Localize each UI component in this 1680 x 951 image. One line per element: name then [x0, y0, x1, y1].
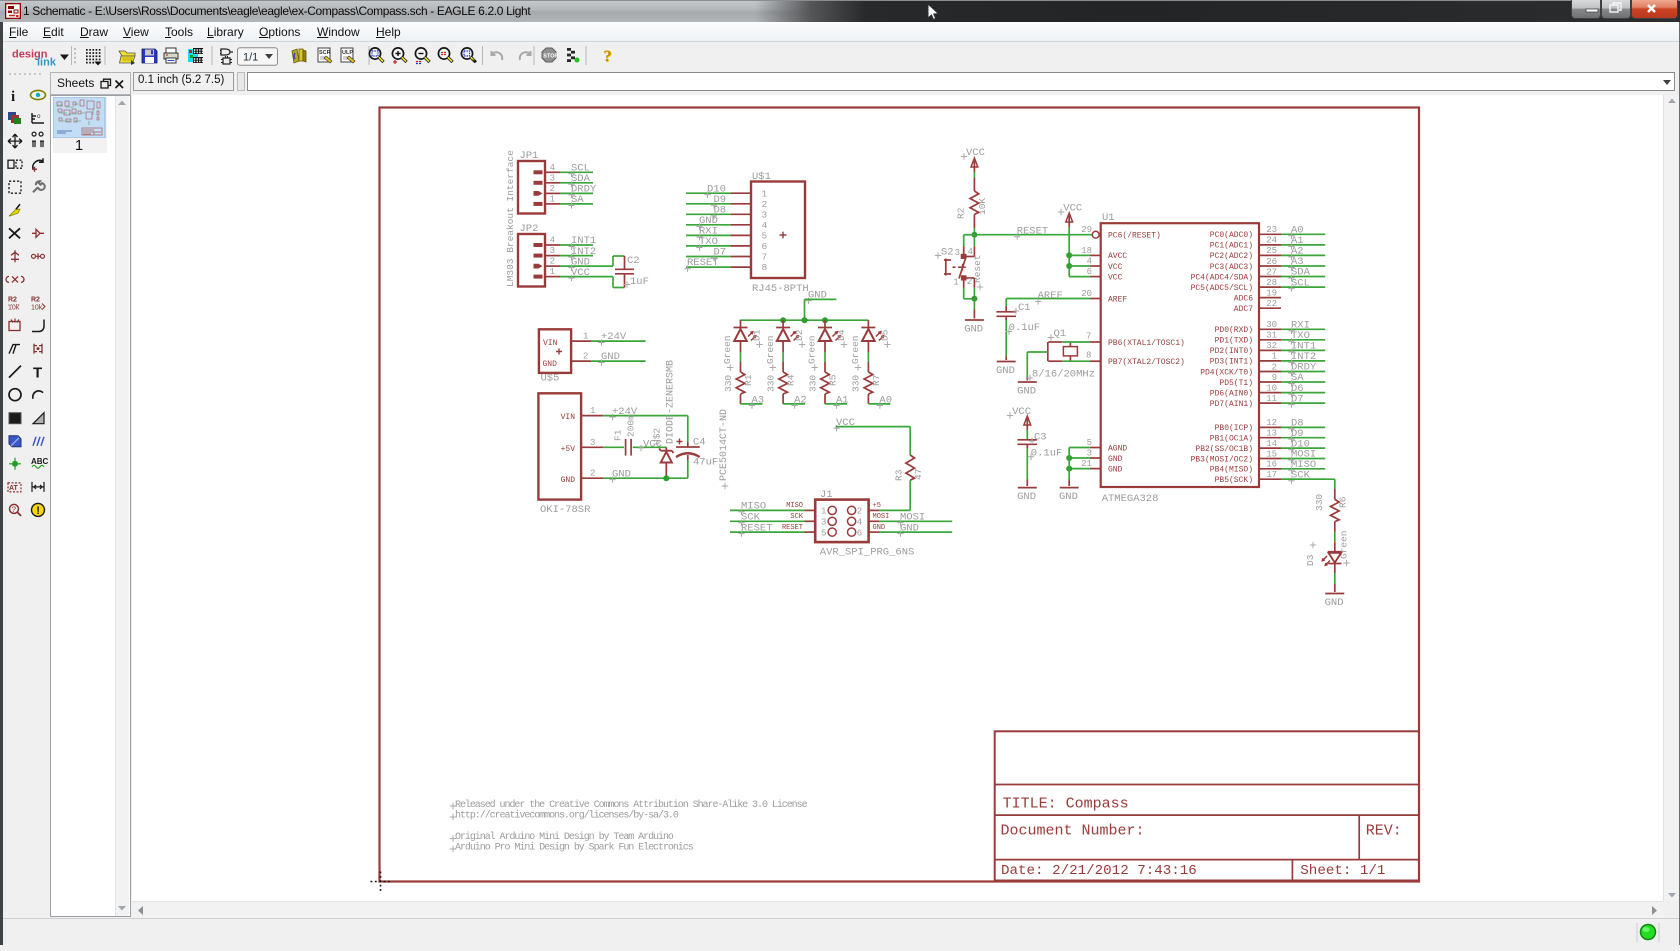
svg-text:link: link	[37, 57, 57, 69]
svg-text:?: ?	[603, 47, 612, 66]
svg-text:OKI-78SR: OKI-78SR	[540, 504, 591, 516]
svg-text:PC2(ADC2): PC2(ADC2)	[1210, 252, 1253, 261]
svg-text:PD1(TXD): PD1(TXD)	[1215, 337, 1253, 346]
svg-text:1: 1	[583, 332, 588, 342]
svg-text:GND: GND	[1108, 455, 1123, 464]
svg-text:18: 18	[1081, 246, 1092, 256]
svg-text:0.1uF: 0.1uF	[1009, 322, 1041, 334]
svg-text:PB6(XTAL1/TOSC1): PB6(XTAL1/TOSC1)	[1108, 339, 1185, 348]
svg-text:17: 17	[1266, 470, 1277, 480]
svg-text:Green: Green	[765, 335, 776, 364]
svg-text:3: 3	[550, 173, 555, 183]
svg-text:PC1(ADC1): PC1(ADC1)	[1210, 242, 1253, 251]
svg-text:SCK: SCK	[790, 513, 803, 521]
svg-text:27: 27	[1266, 267, 1277, 277]
svg-text:ADC7: ADC7	[1234, 305, 1253, 314]
svg-text:1: 1	[1272, 352, 1277, 362]
svg-text:6: 6	[762, 241, 768, 252]
svg-text:1: 1	[550, 194, 555, 204]
svg-text:1: 1	[550, 267, 555, 277]
svg-text:GND: GND	[900, 522, 919, 534]
svg-text:Document Number:: Document Number:	[1001, 823, 1145, 840]
svg-text:11: 11	[1266, 394, 1277, 404]
svg-text:PC3(ADC3): PC3(ADC3)	[1210, 263, 1253, 272]
svg-text:15: 15	[1266, 449, 1277, 459]
svg-text:9: 9	[1272, 373, 1277, 383]
svg-text:Green: Green	[1339, 530, 1350, 559]
svg-text:10: 10	[1266, 383, 1277, 393]
svg-text:21: 21	[1081, 459, 1092, 469]
svg-text:AVR_SPI_PRG_6NS: AVR_SPI_PRG_6NS	[820, 547, 915, 559]
svg-text:PC6(/RESET): PC6(/RESET)	[1108, 232, 1161, 241]
svg-text:AVCC: AVCC	[1108, 252, 1127, 261]
svg-text:PC5(ADC5/SCL): PC5(ADC5/SCL)	[1191, 284, 1253, 293]
svg-text:R1: R1	[743, 374, 754, 386]
svg-text:D4: D4	[836, 329, 847, 341]
svg-text:2: 2	[550, 257, 555, 267]
svg-text:Green: Green	[807, 335, 818, 364]
svg-text:2: 2	[1272, 362, 1277, 372]
svg-text:PCE5014CT-ND: PCE5014CT-ND	[719, 409, 730, 481]
svg-text:Green: Green	[722, 335, 733, 364]
svg-text:A1: A1	[836, 394, 849, 406]
svg-text:31: 31	[1266, 331, 1277, 341]
svg-text:RESET: RESET	[782, 524, 803, 532]
svg-text:A0: A0	[879, 394, 892, 406]
svg-text:Green: Green	[850, 335, 861, 364]
svg-text:3: 3	[955, 248, 960, 258]
svg-text:SCL: SCL	[1291, 277, 1310, 289]
svg-text:D1: D1	[752, 329, 763, 341]
svg-text:ATMEGA328: ATMEGA328	[1102, 493, 1159, 505]
svg-text:10k: 10k	[31, 305, 43, 312]
svg-text:5: 5	[1087, 438, 1092, 448]
svg-text:+5: +5	[873, 502, 881, 510]
svg-text:C1: C1	[1018, 302, 1031, 314]
svg-text:PD2(INT0): PD2(INT0)	[1210, 347, 1253, 356]
svg-text:i: i	[11, 89, 15, 105]
svg-text:GND: GND	[1325, 597, 1344, 609]
svg-text:VCC: VCC	[1063, 203, 1082, 215]
svg-text:3: 3	[550, 246, 555, 256]
svg-text:GND: GND	[1059, 491, 1078, 503]
svg-text:PD3(INT1): PD3(INT1)	[1210, 358, 1253, 367]
svg-text:26: 26	[1266, 257, 1277, 267]
svg-text:F1: F1	[613, 429, 624, 441]
svg-text:GND: GND	[964, 324, 983, 336]
svg-text:2: 2	[967, 277, 972, 287]
svg-text:5: 5	[821, 528, 826, 538]
svg-text:J1: J1	[820, 489, 833, 501]
svg-text:4: 4	[550, 163, 555, 173]
svg-text:3: 3	[762, 210, 768, 221]
svg-text:MOSI: MOSI	[873, 513, 890, 521]
svg-text:200m: 200m	[626, 414, 637, 437]
svg-text:GND: GND	[996, 365, 1015, 377]
svg-text:A3: A3	[752, 394, 765, 406]
svg-text:330: 330	[807, 375, 818, 392]
svg-text:2: 2	[590, 469, 595, 479]
svg-text:1: 1	[762, 188, 768, 199]
svg-text:AREF: AREF	[1038, 290, 1063, 302]
svg-text:2: 2	[550, 184, 555, 194]
svg-text:GND: GND	[612, 469, 631, 481]
svg-text:?: ?	[12, 506, 17, 515]
svg-text:25: 25	[1266, 246, 1277, 256]
svg-text:ABC: ABC	[31, 457, 49, 466]
svg-text:VCC: VCC	[1108, 273, 1123, 282]
svg-text:8: 8	[1086, 351, 1091, 361]
svg-text:DIODE-ZENERSMB: DIODE-ZENERSMB	[666, 360, 677, 444]
svg-text:GND: GND	[1017, 386, 1036, 398]
svg-text:47: 47	[913, 469, 924, 480]
svg-text:TITLE: Compass: TITLE: Compass	[1003, 796, 1129, 813]
svg-text:4: 4	[1087, 257, 1092, 267]
svg-text:JP1: JP1	[520, 150, 539, 162]
svg-text:VCC: VCC	[966, 147, 985, 159]
svg-text:D7: D7	[1291, 393, 1304, 405]
svg-text:GND: GND	[1017, 491, 1036, 503]
svg-text:330: 330	[765, 375, 776, 392]
svg-text:PC4(ADC4/SDA): PC4(ADC4/SDA)	[1191, 273, 1253, 282]
svg-text:D2: D2	[794, 329, 805, 341]
svg-text:AGND: AGND	[1108, 444, 1127, 453]
svg-text:PD5(T1): PD5(T1)	[1219, 379, 1253, 388]
svg-text:RESET: RESET	[687, 257, 719, 269]
svg-text:Released under the Creative Co: Released under the Creative Commons Attr…	[455, 799, 808, 811]
svg-text:29: 29	[1081, 225, 1092, 235]
svg-text:8/16/20MHz: 8/16/20MHz	[1032, 369, 1095, 381]
svg-text:19: 19	[1266, 288, 1277, 298]
svg-text:23: 23	[1266, 225, 1277, 235]
svg-text:Original Arduino Mini Design b: Original Arduino Mini Design by Team Ard…	[455, 831, 674, 843]
svg-text:LM303 Breakout Interface: LM303 Breakout Interface	[505, 150, 516, 287]
svg-text:4: 4	[857, 518, 862, 528]
svg-text:4: 4	[762, 220, 768, 231]
svg-text:GND: GND	[543, 360, 558, 369]
svg-text:2: 2	[857, 507, 862, 517]
svg-text:AREF: AREF	[1108, 295, 1127, 304]
svg-text:5: 5	[762, 231, 768, 242]
svg-text:PB7(XTAL2/TOSC2): PB7(XTAL2/TOSC2)	[1108, 358, 1185, 367]
svg-text:1: 1	[821, 507, 826, 517]
svg-text:PB0(ICP): PB0(ICP)	[1215, 424, 1253, 433]
svg-text:o: o	[37, 113, 41, 120]
svg-text:+24V: +24V	[601, 331, 627, 343]
svg-text:AT: AT	[9, 485, 19, 492]
svg-text:Q1: Q1	[1054, 328, 1067, 340]
svg-text:REV:: REV:	[1366, 823, 1402, 840]
svg-text:VCC: VCC	[571, 267, 590, 279]
svg-text:4: 4	[550, 236, 555, 246]
svg-text:6: 6	[1087, 267, 1092, 277]
svg-text:7: 7	[762, 252, 768, 263]
svg-text:Date: 2/21/2012 7:43:16: Date: 2/21/2012 7:43:16	[1001, 863, 1197, 879]
svg-text:VIN: VIN	[561, 413, 576, 422]
svg-text:2: 2	[583, 352, 588, 362]
svg-text:U1: U1	[1102, 212, 1115, 224]
svg-text:R3: R3	[894, 469, 905, 481]
svg-text:24: 24	[1266, 236, 1277, 246]
svg-text:PD6(AIN0): PD6(AIN0)	[1210, 389, 1253, 398]
svg-text:32: 32	[1266, 341, 1277, 351]
svg-text:U$1: U$1	[752, 171, 771, 183]
svg-text:13: 13	[1266, 429, 1277, 439]
svg-text:0.1uF: 0.1uF	[1031, 447, 1063, 459]
svg-text:PB5(SCK): PB5(SCK)	[1215, 476, 1253, 485]
svg-text:PB4(MISO): PB4(MISO)	[1210, 466, 1253, 475]
svg-text:http://creativecommons.org/lic: http://creativecommons.org/licenses/by-s…	[455, 810, 679, 822]
svg-text:R4: R4	[786, 374, 797, 386]
svg-text:20: 20	[1081, 289, 1092, 299]
svg-text:R2: R2	[956, 207, 967, 219]
svg-text:10k: 10k	[8, 305, 20, 312]
svg-text:PB1(OC1A): PB1(OC1A)	[1210, 435, 1253, 444]
svg-text:330: 330	[1314, 494, 1325, 511]
svg-text:D5: D5	[879, 329, 890, 341]
svg-text:D3: D3	[1305, 554, 1316, 566]
svg-text:SA: SA	[571, 194, 584, 206]
svg-text:RJ45-8PTH: RJ45-8PTH	[752, 283, 809, 295]
svg-text:GND: GND	[1108, 465, 1123, 474]
svg-text:PB2(SS/OC1B): PB2(SS/OC1B)	[1195, 445, 1253, 454]
svg-text:330: 330	[851, 375, 862, 392]
svg-text:RESET: RESET	[1017, 225, 1049, 237]
svg-text:VIN: VIN	[543, 339, 558, 348]
svg-text:RESET: RESET	[741, 522, 773, 534]
svg-text:8: 8	[762, 262, 768, 273]
svg-text:PB3(MOSI/OC2): PB3(MOSI/OC2)	[1191, 455, 1253, 464]
svg-text:47uF: 47uF	[693, 457, 718, 469]
svg-text:Sheet: 1/1: Sheet: 1/1	[1300, 863, 1385, 879]
svg-text:SCR: SCR	[319, 50, 331, 56]
svg-text:S2: S2	[941, 247, 954, 259]
svg-text:GND: GND	[873, 524, 886, 532]
svg-text:3: 3	[1087, 449, 1092, 459]
svg-text:10K: 10K	[977, 198, 988, 215]
svg-text:!: !	[36, 505, 40, 517]
svg-text:12: 12	[1266, 418, 1277, 428]
svg-text:U$5: U$5	[541, 373, 560, 385]
svg-text:+5V: +5V	[561, 445, 576, 454]
svg-text:28: 28	[1266, 278, 1277, 288]
svg-text:Arduino Pro Mini Design by Spa: Arduino Pro Mini Design by Spark Fun Ele…	[455, 842, 694, 854]
svg-text:PD4(XCK/T0): PD4(XCK/T0)	[1200, 368, 1253, 377]
svg-text:C4: C4	[693, 437, 706, 449]
svg-text:VCC: VCC	[1108, 263, 1123, 272]
svg-text:U$2: U$2	[652, 428, 663, 445]
svg-text:PC0(ADC0): PC0(ADC0)	[1210, 231, 1253, 240]
svg-text:JP2: JP2	[520, 223, 539, 235]
svg-text:16: 16	[1266, 460, 1277, 470]
svg-text:6: 6	[857, 528, 862, 538]
svg-text:GND: GND	[561, 476, 576, 485]
svg-text:GND: GND	[601, 351, 620, 363]
svg-text:R7: R7	[871, 375, 882, 386]
svg-text:330: 330	[723, 375, 734, 392]
svg-text:R2: R2	[31, 297, 40, 304]
svg-text:A2: A2	[794, 394, 807, 406]
svg-text:22: 22	[1266, 299, 1277, 309]
svg-text:1: 1	[953, 278, 958, 288]
svg-text:2: 2	[762, 199, 768, 210]
svg-text:C2: C2	[627, 255, 640, 267]
svg-text:30: 30	[1266, 320, 1277, 330]
svg-text:ULP: ULP	[342, 50, 353, 56]
svg-text:T: T	[33, 365, 42, 382]
svg-text:3: 3	[821, 518, 826, 528]
svg-text:R6: R6	[1338, 496, 1349, 508]
svg-text:14: 14	[1266, 439, 1277, 449]
svg-text:1: 1	[590, 406, 595, 416]
svg-text:7: 7	[1086, 332, 1091, 342]
svg-text:1uF: 1uF	[630, 276, 649, 288]
svg-text:3: 3	[590, 438, 595, 448]
svg-text:R2: R2	[8, 297, 17, 304]
svg-text:ADC6: ADC6	[1234, 294, 1253, 303]
svg-text:R5: R5	[828, 374, 839, 386]
svg-text:MISO: MISO	[786, 502, 803, 510]
svg-text:PD0(RXD): PD0(RXD)	[1215, 326, 1253, 335]
svg-text:C3: C3	[1034, 432, 1047, 444]
svg-text:STOP: STOP	[543, 54, 558, 60]
svg-text:PD7(AIN1): PD7(AIN1)	[1210, 400, 1253, 409]
svg-text:1/1: 1/1	[243, 52, 258, 64]
